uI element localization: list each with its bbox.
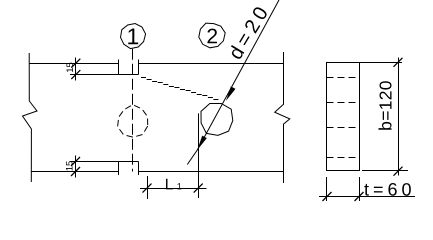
svg-text:b=120: b=120 [376,80,396,131]
svg-text:2: 2 [206,25,218,48]
svg-text:L: L [165,176,174,193]
svg-text:t=60: t=60 [364,180,416,200]
svg-text:1: 1 [126,23,139,49]
svg-text:1: 1 [177,181,182,191]
svg-text:15: 15 [65,62,76,73]
svg-text:15: 15 [65,161,76,172]
